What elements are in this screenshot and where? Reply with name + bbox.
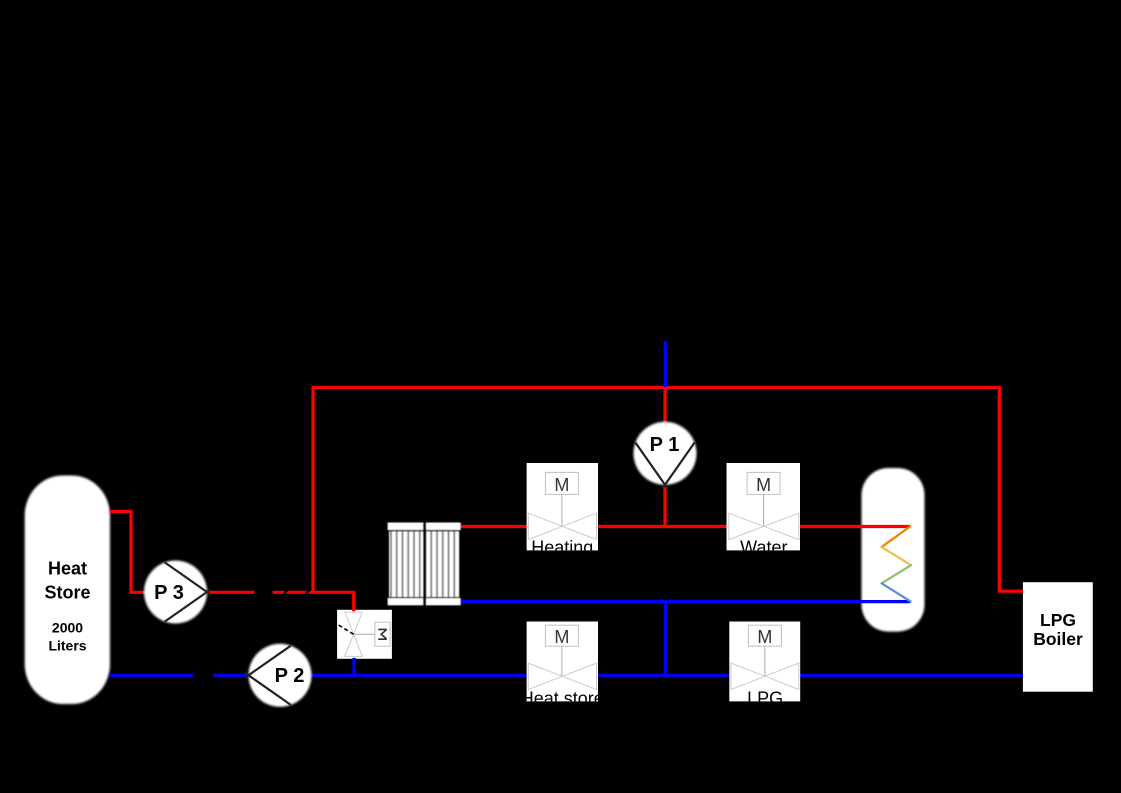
wire return junction drop (blue) bbox=[664, 602, 667, 676]
wire radiator return / coil bottom (blue) bbox=[461, 600, 910, 603]
svg-text:M: M bbox=[756, 475, 771, 495]
heat exchanger vessel bbox=[862, 468, 925, 632]
svg-text:Boiler: Boiler bbox=[1033, 629, 1083, 649]
svg-text:LPG: LPG bbox=[1040, 610, 1076, 630]
wire tank to pump P3 (red) bbox=[110, 512, 160, 593]
valve Water bbox=[727, 463, 801, 557]
heat exchanger coil bbox=[882, 527, 911, 602]
wire expansion stub (blue) bbox=[664, 341, 667, 387]
pump P1 bbox=[634, 422, 697, 489]
svg-text:Liters: Liters bbox=[48, 637, 86, 653]
svg-text:2000: 2000 bbox=[52, 619, 83, 635]
heat store tank bbox=[25, 476, 110, 705]
wire pump P1 riser (red) bbox=[663, 388, 666, 527]
svg-text:M: M bbox=[757, 627, 772, 647]
wire hot main to valves and coil (red) bbox=[461, 525, 910, 528]
valve Heat store bbox=[521, 622, 604, 709]
pump P3 bbox=[144, 561, 211, 624]
wire hot supply manifold (red top loop) bbox=[313, 388, 1023, 593]
break slash marks bbox=[283, 588, 289, 597]
radiator bbox=[388, 523, 461, 606]
three-way mixing valve bbox=[337, 610, 392, 659]
valve Heating bbox=[527, 463, 598, 557]
svg-text:Heat: Heat bbox=[48, 559, 87, 579]
wire 3-way valve hot inlet with break marks (red) bbox=[273, 592, 354, 611]
svg-text:P 3: P 3 bbox=[154, 582, 184, 604]
svg-text:Store: Store bbox=[44, 583, 90, 603]
svg-text:P 2: P 2 bbox=[275, 665, 305, 687]
svg-text:M: M bbox=[554, 627, 569, 647]
wire 3-way valve cold drop (blue) bbox=[352, 658, 355, 676]
svg-text:M: M bbox=[554, 475, 569, 495]
valve LPG bbox=[729, 622, 800, 709]
wire P3 discharge segment (red) bbox=[206, 591, 254, 594]
svg-text:P 1: P 1 bbox=[650, 434, 680, 456]
LPG boiler bbox=[1023, 582, 1093, 692]
pump P2 bbox=[245, 644, 312, 707]
wire cold main (blue) bbox=[110, 674, 1023, 677]
